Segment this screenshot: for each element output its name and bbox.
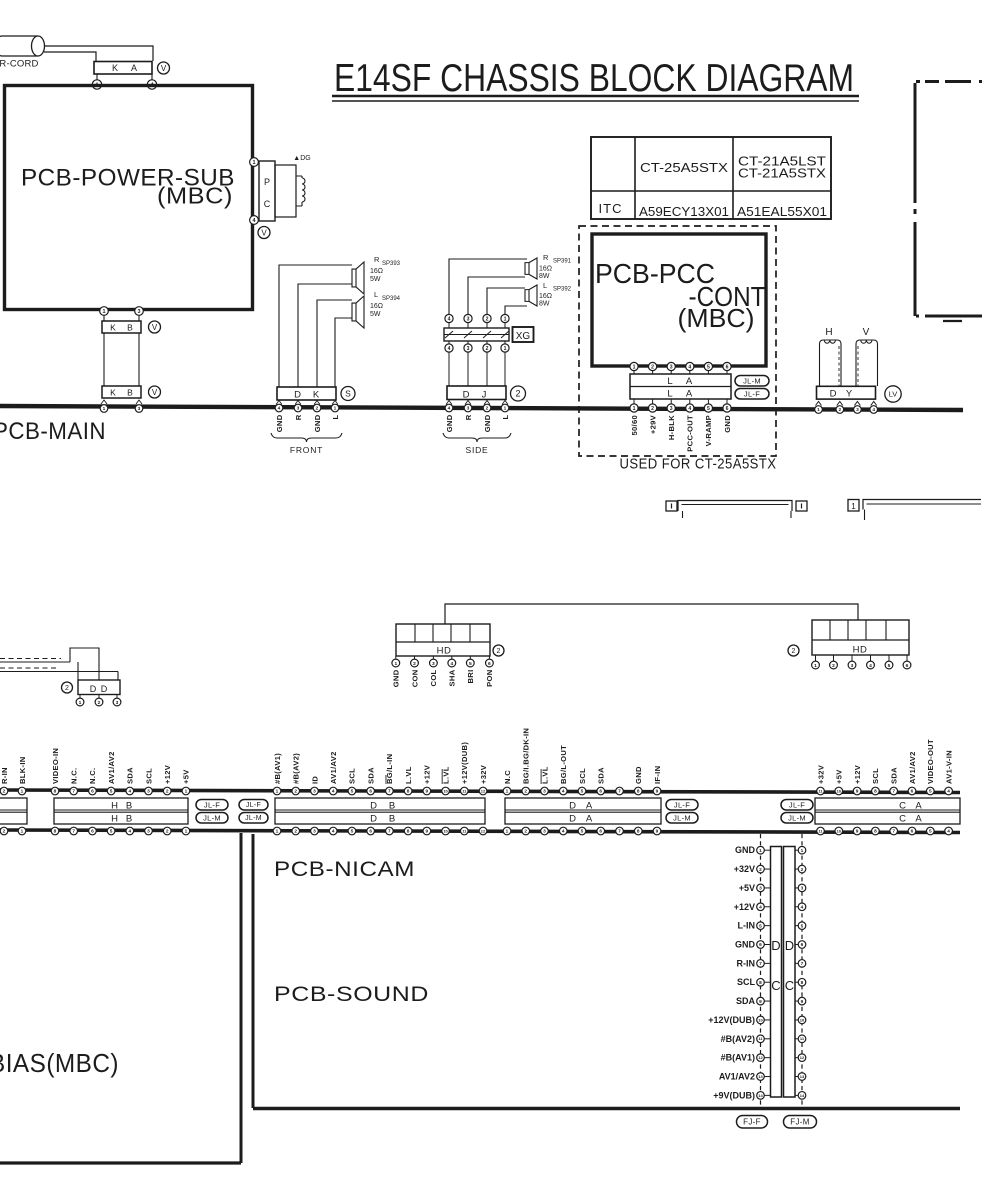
svg-text:3: 3 bbox=[543, 829, 546, 835]
svg-text:10: 10 bbox=[443, 788, 448, 793]
svg-text:2: 2 bbox=[524, 789, 527, 795]
svg-text:5: 5 bbox=[110, 829, 113, 835]
svg-text:GND: GND bbox=[313, 414, 322, 432]
svg-text:SP391: SP391 bbox=[553, 259, 572, 265]
svg-text:7: 7 bbox=[801, 961, 804, 967]
svg-text:H: H bbox=[111, 801, 118, 812]
svg-text:7: 7 bbox=[759, 961, 762, 967]
svg-text:5: 5 bbox=[581, 829, 584, 835]
svg-text:L: L bbox=[667, 376, 672, 387]
svg-text:12: 12 bbox=[481, 788, 486, 793]
svg-text:5: 5 bbox=[110, 789, 113, 795]
svg-text:10: 10 bbox=[800, 1017, 805, 1022]
svg-text:2: 2 bbox=[759, 867, 762, 873]
svg-text:SCL: SCL bbox=[871, 768, 880, 784]
svg-text:8: 8 bbox=[874, 829, 877, 835]
svg-text:7: 7 bbox=[72, 789, 75, 795]
svg-text:13: 13 bbox=[800, 1074, 805, 1079]
svg-text:B: B bbox=[126, 801, 132, 812]
svg-text:16Ω: 16Ω bbox=[539, 266, 552, 273]
svg-text:2: 2 bbox=[3, 829, 6, 835]
svg-text:K: K bbox=[112, 63, 118, 73]
svg-text:D: D bbox=[370, 814, 377, 825]
svg-text:SCL: SCL bbox=[348, 768, 357, 784]
svg-text:R-IN: R-IN bbox=[0, 767, 9, 784]
svg-text:3: 3 bbox=[543, 789, 546, 795]
svg-text:2: 2 bbox=[832, 663, 835, 669]
svg-text:CT-25A5STX: CT-25A5STX bbox=[640, 161, 729, 175]
svg-text:GND: GND bbox=[445, 414, 454, 432]
svg-text:C: C bbox=[785, 978, 794, 993]
svg-text:SDA: SDA bbox=[736, 996, 756, 1006]
svg-text:SP393: SP393 bbox=[382, 261, 401, 267]
svg-text:12: 12 bbox=[758, 1055, 763, 1060]
svg-text:6: 6 bbox=[759, 942, 762, 948]
svg-text:L: L bbox=[374, 290, 378, 299]
svg-text:L: L bbox=[667, 389, 672, 400]
svg-text:4: 4 bbox=[801, 904, 804, 910]
svg-text:1: 1 bbox=[79, 700, 82, 706]
svg-text:A: A bbox=[586, 801, 593, 812]
svg-text:8: 8 bbox=[407, 789, 410, 795]
svg-text:5W: 5W bbox=[370, 311, 381, 318]
svg-text:1: 1 bbox=[801, 848, 804, 854]
svg-text:3: 3 bbox=[138, 406, 141, 412]
svg-text:BG/L-OUT: BG/L-OUT bbox=[559, 745, 568, 784]
svg-text:HD: HD bbox=[437, 646, 452, 657]
svg-text:SCL: SCL bbox=[737, 977, 756, 987]
svg-text:1: 1 bbox=[21, 789, 24, 795]
svg-text:C: C bbox=[899, 801, 906, 812]
svg-text:1: 1 bbox=[276, 829, 279, 835]
svg-text:+12V(DUB): +12V(DUB) bbox=[460, 742, 469, 784]
svg-text:E14SF CHASSIS BLOCK DIAGRAM: E14SF CHASSIS BLOCK DIAGRAM bbox=[334, 57, 854, 100]
svg-text:ID: ID bbox=[310, 776, 319, 784]
svg-text:N.C.: N.C. bbox=[88, 768, 97, 784]
svg-text:1: 1 bbox=[759, 848, 762, 854]
svg-text:C: C bbox=[771, 978, 780, 993]
svg-text:S: S bbox=[345, 388, 351, 398]
svg-text:3: 3 bbox=[432, 661, 435, 667]
svg-text:V: V bbox=[261, 228, 267, 237]
svg-text:B: B bbox=[126, 814, 132, 825]
svg-text:SDA: SDA bbox=[890, 767, 899, 784]
svg-text:COL: COL bbox=[429, 669, 438, 686]
svg-text:A59ECY13X01: A59ECY13X01 bbox=[639, 205, 729, 219]
svg-text:9: 9 bbox=[426, 829, 429, 835]
svg-text:5: 5 bbox=[469, 661, 472, 667]
svg-text:8: 8 bbox=[801, 980, 804, 986]
svg-text:USED FOR CT-25A5STX: USED FOR CT-25A5STX bbox=[620, 457, 777, 473]
svg-text:9: 9 bbox=[656, 829, 659, 835]
svg-text:6: 6 bbox=[369, 789, 372, 795]
svg-text:D: D bbox=[569, 801, 576, 812]
svg-text:4: 4 bbox=[872, 407, 875, 413]
svg-text:6: 6 bbox=[91, 789, 94, 795]
svg-text:6: 6 bbox=[906, 663, 909, 669]
svg-text:1: 1 bbox=[633, 406, 636, 412]
svg-text:CON: CON bbox=[410, 670, 419, 688]
svg-text:4: 4 bbox=[688, 364, 691, 370]
svg-text:2: 2 bbox=[651, 406, 654, 412]
svg-text:B: B bbox=[127, 388, 133, 398]
svg-text:12: 12 bbox=[481, 828, 486, 833]
svg-text:JL-M: JL-M bbox=[673, 813, 691, 822]
svg-text:AV1/AV2: AV1/AV2 bbox=[908, 751, 917, 784]
svg-text:+32V: +32V bbox=[479, 764, 488, 784]
svg-text:7: 7 bbox=[72, 829, 75, 835]
svg-text:BIAS(MBC): BIAS(MBC) bbox=[0, 1048, 119, 1078]
svg-text:3: 3 bbox=[670, 406, 673, 412]
svg-text:2: 2 bbox=[651, 364, 654, 370]
svg-text:3: 3 bbox=[467, 316, 470, 322]
svg-text:2: 2 bbox=[486, 406, 489, 412]
svg-text:VIDEO-IN: VIDEO-IN bbox=[51, 748, 60, 784]
svg-text:3: 3 bbox=[851, 663, 854, 669]
svg-text:2: 2 bbox=[792, 648, 796, 655]
svg-text:H: H bbox=[111, 814, 118, 825]
svg-text:12: 12 bbox=[800, 1055, 805, 1060]
svg-text:3: 3 bbox=[467, 406, 470, 412]
svg-text:AV1/AV2: AV1/AV2 bbox=[719, 1072, 755, 1082]
svg-text:#B(AV1): #B(AV1) bbox=[721, 1053, 755, 1063]
svg-text:L: L bbox=[501, 414, 510, 419]
svg-text:4: 4 bbox=[278, 406, 281, 412]
svg-text:SP392: SP392 bbox=[553, 287, 572, 293]
svg-text:1: 1 bbox=[504, 406, 507, 412]
svg-text:+9V(DUB): +9V(DUB) bbox=[713, 1090, 755, 1100]
svg-text:10: 10 bbox=[758, 1017, 763, 1022]
svg-text:2: 2 bbox=[166, 789, 169, 795]
svg-text:2: 2 bbox=[98, 700, 101, 706]
svg-text:16Ω: 16Ω bbox=[370, 268, 383, 275]
svg-text:J: J bbox=[482, 390, 487, 401]
svg-text:AV1/AV2: AV1/AV2 bbox=[107, 751, 116, 784]
svg-text:6: 6 bbox=[911, 789, 914, 795]
svg-text:▲DG: ▲DG bbox=[293, 155, 310, 162]
svg-text:8: 8 bbox=[874, 789, 877, 795]
svg-text:4: 4 bbox=[332, 829, 335, 835]
svg-text:1: 1 bbox=[103, 406, 106, 412]
svg-text:GND: GND bbox=[392, 669, 401, 687]
svg-text:4: 4 bbox=[947, 789, 950, 795]
svg-text:#B(AV2): #B(AV2) bbox=[292, 753, 301, 784]
svg-text:B: B bbox=[389, 801, 395, 812]
svg-text:7: 7 bbox=[618, 789, 621, 795]
svg-text:3: 3 bbox=[801, 886, 804, 892]
svg-text:2: 2 bbox=[65, 685, 69, 692]
svg-text:XG: XG bbox=[516, 331, 531, 342]
svg-text:1: 1 bbox=[506, 789, 509, 795]
svg-text:6: 6 bbox=[599, 829, 602, 835]
svg-text:R: R bbox=[374, 255, 380, 264]
svg-text:8: 8 bbox=[637, 829, 640, 835]
svg-text:SCL: SCL bbox=[578, 768, 587, 784]
svg-text:+12V: +12V bbox=[423, 764, 432, 784]
svg-text:6: 6 bbox=[599, 789, 602, 795]
svg-text:PCC-OUT: PCC-OUT bbox=[686, 415, 695, 452]
svg-text:D: D bbox=[294, 390, 301, 401]
svg-text:2: 2 bbox=[486, 316, 489, 322]
svg-text:5: 5 bbox=[801, 923, 804, 929]
svg-text:+5V: +5V bbox=[835, 769, 844, 784]
svg-text:4: 4 bbox=[332, 789, 335, 795]
svg-text:BG/L-IN: BG/L-IN bbox=[385, 754, 394, 784]
svg-text:L.VL: L.VL bbox=[441, 766, 450, 784]
svg-text:3: 3 bbox=[147, 789, 150, 795]
svg-text:A: A bbox=[131, 63, 137, 73]
svg-text:IF-IN: IF-IN bbox=[653, 766, 662, 784]
svg-text:16Ω: 16Ω bbox=[539, 293, 552, 300]
svg-text:2: 2 bbox=[3, 789, 6, 795]
svg-text:FRONT: FRONT bbox=[290, 445, 323, 455]
svg-text:L: L bbox=[331, 414, 340, 419]
svg-text:SCL: SCL bbox=[144, 768, 153, 784]
svg-text:BG/I.BG/DK-IN: BG/I.BG/DK-IN bbox=[522, 728, 531, 784]
svg-text:2: 2 bbox=[838, 407, 841, 413]
svg-text:9: 9 bbox=[856, 829, 859, 835]
svg-text:A: A bbox=[915, 814, 922, 825]
svg-text:3: 3 bbox=[670, 364, 673, 370]
svg-text:5: 5 bbox=[929, 829, 932, 835]
svg-text:JL-F: JL-F bbox=[789, 800, 805, 809]
svg-text:4: 4 bbox=[448, 316, 451, 322]
svg-text:8: 8 bbox=[759, 980, 762, 986]
svg-text:1: 1 bbox=[252, 160, 255, 166]
svg-text:D: D bbox=[785, 938, 794, 953]
svg-text:1: 1 bbox=[21, 829, 24, 835]
svg-text:1: 1 bbox=[185, 829, 188, 835]
svg-text:N.C: N.C bbox=[503, 770, 512, 784]
svg-text:GND: GND bbox=[275, 414, 284, 432]
svg-text:K: K bbox=[313, 390, 320, 401]
svg-text:1: 1 bbox=[851, 502, 856, 511]
svg-text:(MBC): (MBC) bbox=[157, 183, 233, 209]
svg-text:JL-F: JL-F bbox=[246, 802, 261, 809]
svg-text:2: 2 bbox=[413, 661, 416, 667]
svg-text:4: 4 bbox=[562, 829, 565, 835]
svg-text:JL-M: JL-M bbox=[788, 813, 806, 822]
svg-text:3: 3 bbox=[313, 789, 316, 795]
svg-text:JL-M: JL-M bbox=[203, 813, 221, 822]
svg-text:R: R bbox=[543, 253, 549, 262]
svg-text:C: C bbox=[899, 814, 906, 825]
svg-text:3: 3 bbox=[313, 829, 316, 835]
svg-text:6: 6 bbox=[91, 829, 94, 835]
svg-text:GND: GND bbox=[634, 766, 643, 784]
svg-text:4: 4 bbox=[448, 406, 451, 412]
svg-text:+12V: +12V bbox=[163, 764, 172, 784]
svg-text:3: 3 bbox=[147, 829, 150, 835]
svg-text:7: 7 bbox=[388, 829, 391, 835]
svg-text:CT-21A5STX: CT-21A5STX bbox=[738, 167, 827, 181]
svg-text:5: 5 bbox=[759, 923, 762, 929]
svg-text:6: 6 bbox=[726, 406, 729, 412]
svg-text:#B(AV1): #B(AV1) bbox=[273, 753, 282, 784]
svg-text:H-BLK: H-BLK bbox=[667, 415, 676, 440]
svg-text:HD: HD bbox=[853, 645, 868, 656]
svg-text:R-CORD: R-CORD bbox=[0, 59, 39, 70]
svg-text:4: 4 bbox=[869, 663, 872, 669]
svg-text:4: 4 bbox=[128, 829, 131, 835]
svg-text:1: 1 bbox=[276, 789, 279, 795]
svg-text:P: P bbox=[264, 177, 270, 187]
svg-text:D: D bbox=[463, 390, 470, 401]
svg-text:#B(AV2): #B(AV2) bbox=[721, 1034, 755, 1044]
svg-text:10: 10 bbox=[837, 828, 842, 833]
svg-text:7: 7 bbox=[892, 789, 895, 795]
svg-text:D: D bbox=[569, 814, 576, 825]
svg-text:2: 2 bbox=[316, 406, 319, 412]
svg-text:4: 4 bbox=[759, 904, 762, 910]
svg-text:5W: 5W bbox=[370, 276, 381, 283]
svg-text:+29V: +29V bbox=[648, 414, 657, 434]
svg-text:4: 4 bbox=[450, 661, 453, 667]
svg-text:1: 1 bbox=[504, 316, 507, 322]
svg-text:8W: 8W bbox=[539, 301, 550, 308]
svg-text:3: 3 bbox=[759, 886, 762, 892]
svg-text:7: 7 bbox=[388, 789, 391, 795]
svg-text:V: V bbox=[863, 327, 870, 338]
svg-text:JL-F: JL-F bbox=[744, 389, 760, 398]
svg-text:5: 5 bbox=[888, 663, 891, 669]
svg-text:R: R bbox=[464, 414, 473, 420]
svg-text:2: 2 bbox=[497, 648, 501, 655]
svg-text:1: 1 bbox=[633, 364, 636, 370]
svg-text:8: 8 bbox=[54, 829, 57, 835]
svg-text:PCB-MAIN: PCB-MAIN bbox=[0, 418, 106, 445]
svg-text:GND: GND bbox=[723, 415, 732, 433]
svg-text:AV1-V-IN: AV1-V-IN bbox=[944, 750, 953, 784]
svg-text:3: 3 bbox=[856, 407, 859, 413]
svg-text:4: 4 bbox=[688, 406, 691, 412]
svg-text:1: 1 bbox=[394, 661, 397, 667]
svg-text:3: 3 bbox=[138, 309, 141, 315]
svg-text:1: 1 bbox=[814, 663, 817, 669]
svg-text:9: 9 bbox=[656, 789, 659, 795]
svg-text:5: 5 bbox=[581, 789, 584, 795]
svg-text:L-IN: L-IN bbox=[738, 921, 756, 931]
svg-text:FJ-F: FJ-F bbox=[743, 1117, 761, 1126]
svg-text:+5V: +5V bbox=[739, 883, 755, 893]
svg-text:+12V: +12V bbox=[734, 902, 755, 912]
svg-text:1: 1 bbox=[504, 346, 507, 352]
svg-text:3: 3 bbox=[297, 406, 300, 412]
svg-text:R: R bbox=[294, 414, 303, 420]
svg-text:L.VL: L.VL bbox=[404, 766, 413, 784]
svg-text:A51EAL55X01: A51EAL55X01 bbox=[737, 205, 827, 219]
svg-text:SDA: SDA bbox=[597, 767, 606, 784]
svg-text:PON: PON bbox=[485, 670, 494, 687]
svg-text:5: 5 bbox=[351, 789, 354, 795]
svg-text:4: 4 bbox=[448, 346, 451, 352]
svg-text:ITC: ITC bbox=[599, 201, 623, 216]
svg-text:JL-M: JL-M bbox=[743, 376, 761, 385]
svg-text:VIDEO-OUT: VIDEO-OUT bbox=[926, 739, 935, 784]
svg-text:2: 2 bbox=[166, 829, 169, 835]
svg-text:A: A bbox=[686, 376, 693, 387]
svg-text:6: 6 bbox=[488, 661, 491, 667]
svg-text:1: 1 bbox=[334, 406, 337, 412]
svg-text:N.C.: N.C. bbox=[70, 768, 79, 784]
svg-text:5: 5 bbox=[929, 789, 932, 795]
svg-text:+12V(DUB): +12V(DUB) bbox=[708, 1015, 755, 1025]
svg-text:1: 1 bbox=[185, 789, 188, 795]
svg-text:2: 2 bbox=[294, 789, 297, 795]
svg-text:JL-M: JL-M bbox=[245, 815, 262, 822]
svg-text:K: K bbox=[110, 323, 116, 333]
svg-text:2: 2 bbox=[486, 346, 489, 352]
svg-text:SIDE: SIDE bbox=[465, 445, 488, 455]
svg-text:R-IN: R-IN bbox=[737, 958, 756, 968]
svg-text:9: 9 bbox=[426, 789, 429, 795]
svg-text:JL-F: JL-F bbox=[674, 800, 690, 809]
svg-text:8: 8 bbox=[407, 829, 410, 835]
svg-text:50/60: 50/60 bbox=[630, 415, 639, 436]
svg-text:5: 5 bbox=[351, 829, 354, 835]
svg-text:7: 7 bbox=[892, 829, 895, 835]
svg-text:13: 13 bbox=[758, 1074, 763, 1079]
svg-text:9: 9 bbox=[856, 789, 859, 795]
svg-text:V: V bbox=[152, 323, 158, 332]
svg-text:8: 8 bbox=[637, 789, 640, 795]
svg-text:+12V: +12V bbox=[853, 764, 862, 784]
svg-text:8W: 8W bbox=[539, 273, 550, 280]
svg-text:JL-F: JL-F bbox=[204, 800, 220, 809]
svg-text:4: 4 bbox=[128, 789, 131, 795]
svg-text:A: A bbox=[586, 814, 593, 825]
svg-text:2: 2 bbox=[294, 829, 297, 835]
svg-text:6: 6 bbox=[911, 829, 914, 835]
svg-text:2: 2 bbox=[524, 829, 527, 835]
svg-text:1: 1 bbox=[817, 407, 820, 413]
svg-text:6: 6 bbox=[801, 942, 804, 948]
svg-text:BRI: BRI bbox=[466, 670, 475, 684]
svg-text:SP394: SP394 bbox=[382, 296, 401, 302]
svg-text:+32V: +32V bbox=[816, 764, 825, 784]
svg-text:K: K bbox=[110, 388, 116, 398]
svg-text:8: 8 bbox=[54, 789, 57, 795]
svg-text:D: D bbox=[370, 801, 377, 812]
svg-text:PCB-NICAM: PCB-NICAM bbox=[274, 858, 415, 881]
svg-text:4: 4 bbox=[562, 789, 565, 795]
svg-text:SDA: SDA bbox=[126, 767, 135, 784]
svg-text:AV1/AV2: AV1/AV2 bbox=[329, 751, 338, 784]
svg-text:C: C bbox=[264, 199, 271, 209]
svg-text:3: 3 bbox=[116, 700, 119, 706]
svg-text:L.VL: L.VL bbox=[540, 766, 549, 784]
svg-text:14: 14 bbox=[758, 1093, 763, 1098]
svg-text:5: 5 bbox=[707, 406, 710, 412]
svg-text:SHA: SHA bbox=[448, 669, 457, 686]
svg-text:A: A bbox=[686, 389, 693, 400]
svg-text:+32V: +32V bbox=[734, 864, 755, 874]
svg-text:B: B bbox=[389, 814, 395, 825]
svg-text:6: 6 bbox=[726, 364, 729, 370]
svg-text:9: 9 bbox=[801, 999, 804, 1005]
svg-text:(MBC): (MBC) bbox=[678, 303, 755, 333]
svg-text:V: V bbox=[161, 64, 167, 73]
svg-text:GND: GND bbox=[735, 940, 756, 950]
svg-text:10: 10 bbox=[443, 828, 448, 833]
svg-text:L: L bbox=[543, 281, 547, 290]
svg-text:BLK-IN: BLK-IN bbox=[18, 756, 27, 784]
svg-text:GND: GND bbox=[483, 414, 492, 432]
svg-text:SDA: SDA bbox=[366, 767, 375, 784]
svg-text:D D: D D bbox=[90, 684, 109, 694]
svg-text:A: A bbox=[915, 801, 922, 812]
svg-text:PCB-SOUND: PCB-SOUND bbox=[274, 983, 429, 1006]
